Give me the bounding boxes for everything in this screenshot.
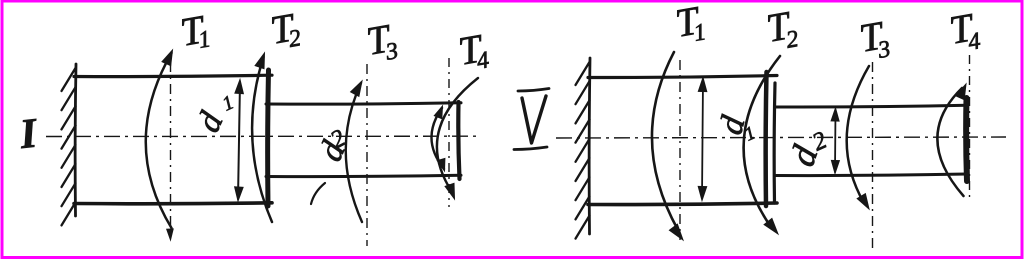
station line at T3 (left figure) [366,64,368,246]
label V with overline and underline (variant number, right figure) [522,96,546,143]
label T3 (left figure) [363,14,400,68]
arrowhead of inner torque arc T4 top (left figure) [434,106,442,119]
station line at T4 (left figure) [448,58,450,207]
torque arc T2 crossing shaft (right figure) [744,56,780,227]
small shaft section d2 outline top (left figure) [266,103,461,104]
torque arc T4 inner at end face (left figure) [431,108,444,169]
arrowhead of torque arc T4 top (right figure) [956,84,967,100]
shoulder step edge between d1 and d2 (right figure) [763,72,768,206]
label T4 (right figure) [946,4,982,59]
station line at T1 (right figure) [679,60,681,240]
arrowhead of torque arc T1 bottom (right figure) [669,224,683,240]
shoulder step edge between d1 and d2 (left figure) [265,70,271,206]
label T1 (left figure) [177,6,213,57]
dimension arrowhead d1 down (right figure) [698,186,707,200]
large shaft section d1 outline top (left figure) [74,75,272,76]
arrowhead of torque arc T1 top (left figure) [162,50,173,66]
wall support line (left figure) [74,64,78,216]
torque arc T3 crossing shaft (right figure) [847,66,869,203]
torque arc T4 outer sweep (left figure) [437,78,478,192]
dimension arrowhead d1 up (left figure) [235,80,244,94]
arrowhead of torque arc T3 top (left figure) [351,81,362,96]
torque arc T4 at free end (right figure) [937,88,963,196]
label T2 (left figure) [267,4,303,56]
wall support line (right figure) [588,58,592,234]
arrowhead of torque arc T4 bottom (left figure) [445,183,454,199]
free end cap of shaft (right figure) [963,98,970,181]
torque arc T1 crossing shaft (right figure) [652,52,678,230]
label d2 rotated (right figure) [782,140,826,172]
small shaft section d2 outline top (right figure) [775,105,967,107]
dimension arrowhead d2 up (right figure) [831,108,839,121]
label T4 (left figure) [455,25,491,78]
centerline (left shaft axis) [46,135,477,137]
label T1 (right figure) [672,0,708,50]
label T3 (right figure) [856,12,892,67]
station line arrow pointing down at T1 (left figure) [167,229,174,240]
station line at T1 (left figure) [170,62,172,226]
leader tail below d2 (left figure) [311,183,325,204]
large shaft section d1 outline bottom (left figure) [74,201,272,206]
second shoulder line (right figure) [773,83,777,203]
dimension arrowhead d1 up (right figure) [698,78,707,92]
free end cap of shaft (left figure) [458,102,459,179]
dimension arrowhead d2 down (right figure) [831,160,839,173]
small shaft section d2 outline bottom (right figure) [775,174,967,176]
arrowhead of torque arc T3 bottom (right figure) [857,194,869,209]
torque arc T3 crossing shaft (left figure) [346,83,362,222]
label T2 (right figure) [763,1,800,56]
arrowhead of torque arc T2 bottom (right figure) [764,218,778,234]
station line at T4 (right figure) [969,55,971,198]
label d2 rotated (left figure) [312,135,353,166]
torque arc T2 crossing shaft (left figure) [252,57,272,222]
diameter dimension line d1 (right figure) [702,80,703,198]
diameter dimension line d2 (right figure) [834,110,837,172]
centerline (right shaft axis) [556,137,1006,138]
wall hatching (right figure) [576,62,590,85]
wall hatching (left figure) [62,68,76,91]
large shaft section d1 outline bottom (right figure) [588,203,777,205]
torque arc T1 crossing shaft (left figure) [146,53,172,228]
station line at T3 (right figure) [872,62,874,248]
arrowhead of inner torque arc T4 bottom (left figure) [437,158,445,171]
diameter dimension line d1 (left figure) [238,82,240,199]
label d1 rotated (left figure) [190,106,231,138]
dimension arrowhead d1 down (left figure) [235,187,244,201]
arrowhead of torque arc T2 top (left figure) [255,53,264,69]
large shaft section d1 outline top (right figure) [588,76,777,78]
small shaft section d2 outline bottom (left figure) [266,175,461,176]
label d1 rotated (right figure) [712,111,752,138]
